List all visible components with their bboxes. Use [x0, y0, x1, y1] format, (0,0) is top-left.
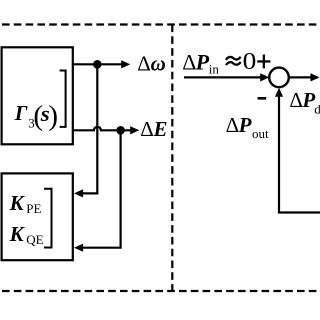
arrowhead into block input1 — [74, 189, 83, 197]
svg-text:P: P — [238, 113, 252, 137]
svg-text:Δ: Δ — [140, 117, 154, 141]
dashed boundary line bottom — [2, 290, 320, 292]
wire vertical2 feedback to lower block — [83, 130, 121, 247]
label delta P_in approx 0 plus — [182, 48, 270, 77]
node dot2 — [116, 126, 125, 135]
svg-text:P: P — [195, 49, 210, 74]
svg-text:K: K — [9, 191, 26, 215]
svg-text:out: out — [252, 126, 269, 141]
svg-text:): ) — [48, 100, 58, 132]
block U2 gain matrix — [2, 173, 73, 260]
wire vertical1 feedback to lower block — [83, 64, 97, 193]
svg-text:K: K — [9, 222, 26, 246]
summing junction circle — [269, 68, 289, 88]
svg-text:E: E — [153, 117, 168, 141]
arrowhead line1 — [121, 60, 130, 68]
svg-text:PE: PE — [26, 201, 41, 216]
block U1 transfer function — [2, 47, 73, 144]
wire output line — [289, 76, 312, 78]
bracket upper block — [60, 71, 66, 127]
arrowhead up into summing junction — [275, 88, 283, 97]
wire input line to summing junction — [184, 76, 262, 78]
label Gamma3(s) — [14, 100, 58, 132]
wire line2 dE with hop — [73, 127, 131, 131]
label delta P_de (cropped) — [289, 88, 320, 117]
svg-text:ω: ω — [151, 51, 166, 75]
node dot1 — [93, 60, 102, 69]
svg-text:Δ: Δ — [182, 49, 196, 74]
svg-text:in: in — [209, 62, 220, 77]
label delta P_out — [226, 113, 269, 141]
label K_PE — [9, 191, 42, 216]
minus sign for feedback input — [258, 97, 267, 100]
label delta E — [140, 117, 167, 141]
arrowhead output — [311, 73, 320, 81]
dashed boundary line top — [2, 23, 320, 25]
svg-text:QE: QE — [26, 232, 43, 247]
dashed divider vertical — [171, 25, 173, 292]
arrowhead into block input2 — [74, 244, 83, 252]
svg-text:Γ: Γ — [14, 101, 28, 125]
bracket lower block — [44, 189, 52, 248]
wire feedback from right into summing junction bottom — [279, 97, 320, 213]
label delta omega — [137, 51, 166, 75]
arrowhead line2 — [130, 126, 139, 134]
arrowhead into summing junction — [260, 73, 269, 81]
wire line1 domega — [73, 63, 122, 65]
svg-text:de: de — [314, 102, 320, 117]
svg-text:Δ: Δ — [226, 113, 240, 137]
svg-text:0: 0 — [243, 48, 257, 75]
label K_QE — [9, 222, 44, 247]
svg-text:Δ: Δ — [137, 51, 151, 75]
svg-text:Δ: Δ — [289, 88, 303, 112]
